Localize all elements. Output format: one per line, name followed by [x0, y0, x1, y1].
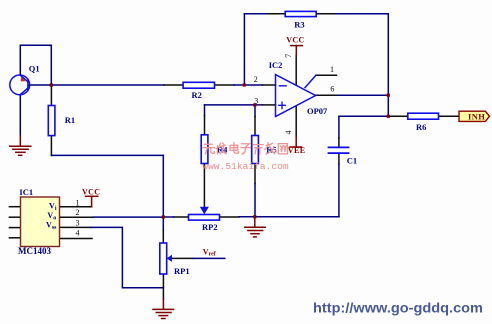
wire RP1 wiper stub	[172, 257, 194, 259]
wire R3 left pin stub	[268, 13, 285, 15]
node base junction at Q1	[50, 83, 53, 86]
svg-text:4: 4	[76, 229, 80, 238]
wire RP2 right to ground node	[239, 216, 255, 218]
wire R5 top vertical	[254, 105, 256, 117]
wire output to node B	[338, 94, 388, 96]
potentiometer RP1 wiper arrow	[167, 255, 172, 262]
node D junction at RP1 top	[162, 215, 165, 218]
resistor R3	[285, 11, 316, 16]
wire C1 top vertical	[338, 116, 340, 138]
wire RP2 left to node D	[163, 216, 173, 218]
wire R6 left pin stub from node C	[388, 115, 408, 117]
wire R1 bottom to vertical bus	[50, 136, 52, 156]
svg-text:1: 1	[330, 65, 334, 74]
wire IC1 left pin d	[9, 237, 20, 239]
wire R4 top pin stub	[204, 116, 206, 135]
wire R6 right to INH port	[439, 115, 460, 117]
svg-text:VCC: VCC	[286, 35, 304, 44]
svg-text:MC1403: MC1403	[18, 246, 51, 256]
wire IC1 pin3 to corner	[91, 227, 163, 287]
wire IC1 left pin c	[9, 227, 20, 229]
ground below RP1	[153, 299, 174, 318]
ground at Q1 emitter	[10, 136, 31, 156]
wire R5 bottom to ground node	[254, 184, 256, 217]
wire RP1 bottom to ground	[162, 274, 164, 299]
resistor R1	[48, 106, 55, 136]
wire R1 bottom horizontal run	[51, 154, 163, 156]
capacitor C1	[329, 147, 349, 153]
wire RP2 right pin stub	[220, 216, 240, 218]
wire vertical bus to RP1 node	[162, 155, 164, 230]
wire Q1 collector-base loop	[20, 45, 51, 84]
svg-text:7: 7	[284, 54, 293, 58]
svg-text:C1: C1	[347, 155, 357, 165]
wire feedback right vertical	[387, 14, 389, 95]
wire pin stub R2 left	[164, 84, 183, 86]
svg-text:1: 1	[76, 198, 80, 207]
wire R2 right pin stub	[215, 84, 235, 86]
svg-text:4: 4	[284, 131, 293, 135]
wire R4 bottom to RP2 wiper	[203, 164, 205, 207]
wire R5 top pin stub	[254, 117, 256, 136]
svg-text:OP07: OP07	[307, 106, 328, 116]
wire R5 bottom pin stub	[254, 164, 256, 184]
power VEE at op-amp	[290, 137, 302, 147]
node B output junction	[387, 94, 390, 97]
wire op-amp pin3 stub	[263, 104, 276, 106]
node plus input junction	[253, 103, 256, 106]
svg-text:6: 6	[330, 84, 334, 93]
Q1 emitter arrow	[21, 77, 26, 82]
watermark line1 CJK	[203, 143, 288, 154]
port INH	[459, 111, 490, 121]
wire feedback top run right of R3	[336, 13, 389, 15]
node C junction	[387, 115, 390, 118]
wire op-amp pin2 stub	[263, 84, 276, 86]
wire Q1 emitter down	[19, 95, 21, 136]
potentiometer RP1 body	[160, 243, 167, 274]
svg-text:INH: INH	[468, 112, 485, 122]
wire IC1 pin2 to node D	[93, 216, 163, 218]
wire IC1 pin1 stub	[60, 206, 92, 208]
svg-text:R2: R2	[192, 90, 202, 100]
potentiometer RP2 body	[189, 215, 220, 221]
svg-text:VEE: VEE	[288, 146, 306, 155]
wire RP1 top pin stub	[162, 230, 164, 243]
IC1 body MC1403	[21, 197, 60, 247]
wire IC1 left pin a	[9, 206, 20, 208]
wire IC1 pin4 stub	[60, 238, 93, 240]
wire op-amp output pin stub	[316, 94, 338, 96]
wire C1 bottom pin stub	[338, 153, 340, 164]
wire R4 top vertical	[204, 105, 206, 116]
svg-text:IC1: IC1	[19, 187, 33, 197]
wire C1 top pin stub	[338, 138, 340, 147]
power VCC at op-amp	[291, 46, 303, 55]
wire node A to op-amp minus input	[244, 84, 262, 86]
wire bottom run C1 to ground node	[255, 216, 339, 218]
svg-text:R1: R1	[65, 115, 75, 125]
op-amp pin1 diagonal	[305, 75, 316, 87]
wire base of Q1 to R2 left	[29, 84, 164, 86]
wire Vref net	[193, 257, 224, 259]
wire feedback top left vertical	[243, 14, 245, 85]
wire plus input run from R4 top	[205, 104, 263, 106]
resistor R5	[252, 136, 259, 164]
wire feedback top run left of R3	[244, 13, 267, 15]
wire node C left to C1 top corner	[339, 115, 388, 117]
wire op-amp pin4 stub	[295, 107, 297, 137]
svg-text:3: 3	[76, 218, 80, 227]
svg-text:VCC: VCC	[82, 188, 100, 197]
node ground junction	[253, 215, 256, 218]
resistor R2	[183, 82, 214, 88]
transistor Q1	[10, 75, 30, 95]
wire R1 top pin stub	[50, 86, 52, 106]
svg-text:RP2: RP2	[202, 222, 218, 232]
svg-text:RP1: RP1	[174, 266, 190, 276]
op-amp plus sign	[279, 102, 286, 109]
wire IC1 pin2 stub	[60, 216, 94, 218]
svg-text:2: 2	[76, 208, 80, 217]
power VCC at IC1	[86, 196, 98, 207]
wire R2 to node A	[234, 84, 244, 86]
wire op-amp pin1 lead	[316, 74, 337, 76]
svg-text:Q1: Q1	[29, 64, 40, 74]
svg-text:2: 2	[254, 75, 258, 84]
wire IC1 pin3 stub	[60, 226, 92, 228]
node A junction	[243, 83, 246, 86]
wire node B down to node C	[387, 95, 389, 116]
wire RP2 left pin stub	[174, 216, 189, 218]
ground at R5 C1 net	[245, 218, 265, 237]
svg-text:http://www.go-gddq.com: http://www.go-gddq.com	[313, 299, 483, 315]
svg-text:3: 3	[254, 97, 258, 106]
svg-text:www.51kaifa.com: www.51kaifa.com	[202, 161, 289, 172]
svg-text:R6: R6	[416, 122, 426, 132]
wire C1 bottom vertical	[338, 164, 340, 217]
wire op-amp pin7 stub	[295, 55, 297, 84]
wire IC1 left pin b	[9, 216, 20, 218]
svg-text:IC2: IC2	[269, 60, 283, 70]
potentiometer RP2 wiper arrow	[200, 207, 209, 214]
op-amp U1 triangle	[276, 75, 316, 117]
wire R3 right pin stub	[316, 13, 336, 15]
svg-text:R3: R3	[294, 20, 304, 30]
op-amp minus sign	[280, 85, 287, 87]
resistor R4	[201, 135, 208, 164]
svg-text:Vref: Vref	[203, 248, 217, 258]
resistor R6	[408, 113, 439, 119]
